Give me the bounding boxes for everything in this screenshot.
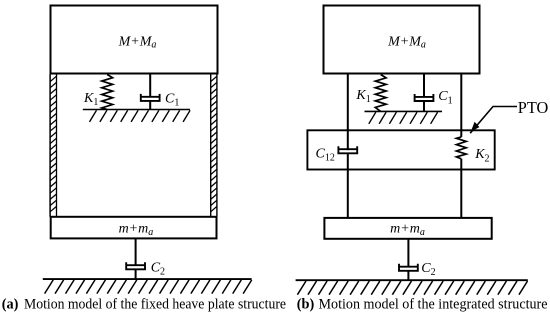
spring K2 [456, 137, 466, 159]
damper C1 (b) body [415, 94, 434, 101]
damper C2 (a) rod upper [135, 239, 137, 266]
svg-text:(b): (b) [297, 297, 315, 313]
damper C2 (a) body [126, 262, 145, 269]
hanger rod right upper (b) [460, 75, 462, 137]
hanger rod left lower (b) [347, 153, 349, 217]
mass block m+ma (b) [324, 218, 491, 239]
damper C1 (a) rod upper [149, 75, 151, 97]
damper C2 (a) rod lower [135, 269, 137, 279]
PTO arrowhead [471, 122, 480, 132]
damper C12 body [338, 146, 357, 153]
svg-text:m+ma: m+ma [390, 222, 425, 238]
hanger rod right lower (b) [460, 159, 462, 218]
damper C1 (b) rod lower [423, 101, 425, 112]
inner ground hatching (b) [365, 111, 443, 123]
svg-text:(a): (a) [2, 297, 19, 313]
inner ground hatching (a) [83, 110, 190, 122]
hatched left wall (a) [50, 75, 56, 217]
damper C1 (a) body [141, 94, 160, 101]
seabed ground (a) [43, 279, 252, 294]
damper C2 (b) rod upper [407, 239, 409, 267]
mass block m+ma (a) [51, 217, 217, 239]
svg-text:PTO: PTO [518, 98, 549, 117]
svg-text:M+Ma: M+Ma [118, 34, 157, 50]
damper C1 (b) rod upper [423, 75, 425, 97]
PTO leader line [470, 107, 517, 134]
PTO box [307, 130, 494, 169]
mass block M+Ma (b) [324, 6, 480, 74]
svg-text:M+Ma: M+Ma [387, 34, 426, 50]
mass block M+Ma (a) [51, 6, 218, 74]
damper C2 (b) rod lower [407, 271, 409, 281]
damper C2 (b) body [399, 264, 418, 271]
svg-text:Motion model of the fixed heav: Motion model of the fixed heave plate st… [24, 297, 286, 313]
hatched right wall (a) [211, 75, 217, 217]
damper C1 (a) rod lower [149, 101, 151, 110]
seabed ground (b) [296, 280, 528, 295]
spring K1 (a) [102, 75, 113, 110]
svg-text:Motion model of the integrated: Motion model of the integrated structure [319, 297, 548, 313]
spring K1 (b) [375, 75, 386, 112]
hanger rod left upper (b) [347, 75, 349, 151]
svg-text:m+ma: m+ma [119, 222, 154, 238]
